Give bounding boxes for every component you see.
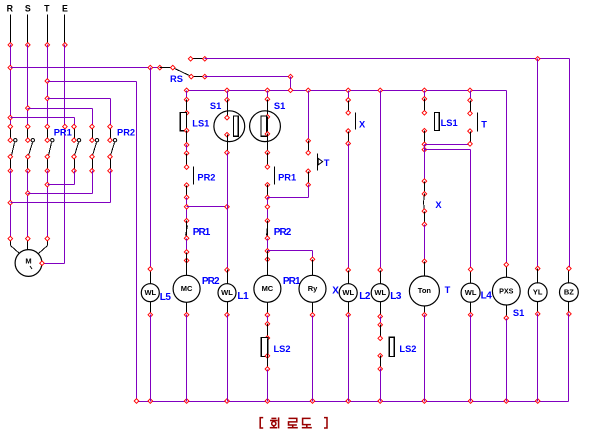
contact X NO bbox=[348, 101, 350, 113]
limit switch LS2 NO bbox=[380, 325, 382, 339]
contact PR1 NC bbox=[186, 221, 188, 239]
wire R to RS switch horizontal bbox=[11, 67, 160, 69]
svg-text:MC: MC bbox=[181, 284, 193, 293]
wire T-contact to MC2 bbox=[308, 185, 310, 198]
buzzer BZ bbox=[568, 269, 570, 284]
wire T terminal stub bbox=[47, 15, 49, 45]
wire S to PR2 pole2 top bbox=[28, 108, 93, 110]
title [ hoe ro do ] circuit diagram bbox=[260, 417, 327, 428]
svg-text:LS2: LS2 bbox=[274, 344, 291, 354]
svg-text:E: E bbox=[62, 4, 68, 14]
contactor PR2 pole 3 bbox=[110, 127, 112, 141]
wire L1 lead bbox=[227, 100, 229, 118]
wire PXS to rail bbox=[506, 319, 508, 402]
svg-text:S1: S1 bbox=[274, 101, 285, 111]
wire top rail right drop to BZ bbox=[569, 59, 571, 269]
wire MC2 to Ry coil bbox=[268, 250, 313, 252]
wire MC1 branch top bbox=[186, 91, 188, 100]
svg-text:S1: S1 bbox=[513, 308, 524, 318]
svg-text:WL: WL bbox=[465, 288, 477, 297]
svg-text:X: X bbox=[332, 286, 339, 297]
wire L4 branch top bbox=[470, 91, 472, 101]
svg-text:LS1: LS1 bbox=[192, 118, 209, 128]
svg-text:PXS: PXS bbox=[499, 286, 514, 295]
wire R phase vertical bbox=[10, 45, 12, 127]
wire control bus bbox=[187, 90, 507, 92]
wire S to PR2 pole2 bottom bbox=[28, 193, 93, 195]
wire L5 to rail bbox=[150, 315, 152, 402]
wire L3 to rail bbox=[380, 369, 382, 402]
wire bottom rail bbox=[137, 401, 569, 403]
timer coil Ton bbox=[409, 276, 439, 306]
svg-text:L1: L1 bbox=[237, 291, 249, 302]
wire L2 branch top bbox=[348, 91, 350, 101]
wire L2 to rail bbox=[348, 315, 350, 402]
svg-text:L5: L5 bbox=[160, 292, 172, 303]
lamp WL L1 bbox=[218, 284, 236, 302]
relay coil Ry bbox=[312, 260, 314, 276]
svg-text:PR1: PR1 bbox=[193, 227, 211, 238]
wire MC1 to coil bbox=[186, 239, 188, 253]
wire MC2 lead bbox=[267, 100, 269, 117]
wire L3 branch top bbox=[380, 91, 382, 271]
svg-text:LS1: LS1 bbox=[441, 118, 458, 128]
svg-text:RS: RS bbox=[170, 74, 183, 84]
wire Ton junction B bbox=[425, 149, 471, 151]
svg-text:YL: YL bbox=[533, 287, 543, 296]
svg-text:X: X bbox=[435, 200, 442, 210]
svg-text:Ry: Ry bbox=[308, 284, 318, 293]
wire MC2 below coil bbox=[267, 316, 269, 324]
wire S terminal stub bbox=[27, 15, 29, 45]
svg-text:WL: WL bbox=[144, 288, 156, 297]
wire PR1 pole1 output bbox=[10, 171, 12, 239]
wire MC1 lead bbox=[186, 100, 188, 113]
svg-text:WL: WL bbox=[374, 288, 386, 297]
wire T to PR2 pole1 bottom bbox=[48, 184, 75, 186]
lamp WL L5 bbox=[150, 270, 152, 284]
wire MC1 to rail bbox=[186, 315, 188, 402]
lamp WL L2 bbox=[339, 284, 357, 302]
svg-text:L3: L3 bbox=[390, 291, 402, 302]
svg-text:PR2: PR2 bbox=[197, 173, 215, 183]
contactor PR1 pole 1 bbox=[10, 127, 12, 141]
svg-text:S1: S1 bbox=[210, 101, 221, 111]
lamp WL L4 bbox=[470, 270, 472, 284]
svg-text:WL: WL bbox=[221, 288, 233, 297]
contactor PR1 pole 3 bbox=[47, 127, 49, 141]
wire L4 to rail bbox=[470, 315, 472, 402]
wire L5 branch from R feed bbox=[150, 68, 152, 270]
wire T to PR2 pole3 top bbox=[48, 98, 111, 100]
wire Ry to rail bbox=[312, 316, 314, 402]
wire MC2 mid bbox=[267, 198, 269, 221]
wire PR1 pole3 output bbox=[47, 171, 49, 239]
sensor PXS bbox=[506, 265, 508, 278]
contactor coil MC1 bbox=[173, 275, 200, 302]
svg-text:PR2: PR2 bbox=[202, 276, 220, 287]
svg-text:PR2: PR2 bbox=[274, 227, 292, 238]
contactor PR2 pole 2 bbox=[92, 127, 94, 141]
lamp YL bbox=[537, 269, 539, 284]
limit switch LS1 NO bbox=[424, 99, 426, 113]
wire MC1 below LS1 bbox=[186, 131, 188, 145]
contactor PR1 pole 2 bbox=[27, 127, 29, 141]
wire L1 to rail bbox=[227, 315, 229, 402]
wire top control rail bbox=[205, 58, 570, 60]
contact X NC bbox=[424, 182, 426, 194]
svg-text:R: R bbox=[7, 4, 14, 14]
wire L1 branch top bbox=[227, 91, 229, 100]
svg-text:WL: WL bbox=[342, 288, 354, 297]
svg-text:L4: L4 bbox=[481, 290, 493, 301]
wire T phase vertical bbox=[47, 45, 49, 127]
wire MC2 to rail bbox=[267, 370, 269, 402]
svg-text:T: T bbox=[44, 4, 50, 14]
svg-text:M: M bbox=[25, 257, 31, 266]
wire BZ to rail bbox=[568, 314, 570, 402]
svg-text:PR1: PR1 bbox=[278, 173, 296, 183]
wire MC2 branch top bbox=[267, 91, 269, 100]
wire S phase vertical bbox=[27, 45, 29, 127]
svg-text:Ton: Ton bbox=[418, 286, 432, 295]
svg-text:L2: L2 bbox=[359, 291, 371, 302]
wire L2 to coil bbox=[348, 144, 350, 271]
wire E to motor frame bbox=[43, 263, 65, 265]
pushbutton S1 NC bbox=[250, 111, 281, 142]
wire MC2 to coil bbox=[267, 239, 269, 251]
limit switch LS1 NC bbox=[180, 112, 186, 130]
pushbutton S1 NO bbox=[214, 111, 245, 142]
wire bus right drop to PXS bbox=[506, 91, 508, 265]
svg-text:BZ: BZ bbox=[564, 287, 574, 296]
contact T delay NO bbox=[308, 141, 310, 153]
contact T NO bbox=[470, 101, 472, 114]
contact PR1 NO bbox=[267, 153, 269, 167]
wire MC1 junction to L1 bbox=[186, 198, 188, 221]
wire T to bottom rail bbox=[48, 81, 137, 83]
wire Ton to coil bbox=[424, 225, 426, 262]
wire R to PR2 pole1 top bbox=[11, 117, 75, 119]
svg-text:PR1: PR1 bbox=[54, 128, 72, 138]
svg-text:T: T bbox=[324, 158, 330, 168]
svg-text:S: S bbox=[25, 4, 31, 14]
contactor coil MC2 bbox=[254, 275, 281, 302]
contact PR2 NC bbox=[267, 221, 269, 239]
wire RS lower output bbox=[205, 76, 291, 78]
svg-text:MC: MC bbox=[262, 284, 274, 293]
motor M bbox=[15, 250, 42, 277]
svg-text:X: X bbox=[359, 119, 366, 129]
svg-text:T: T bbox=[481, 120, 487, 130]
svg-text:PR1: PR1 bbox=[283, 276, 301, 287]
wire E terminal stub bbox=[64, 15, 66, 45]
contact PR2 NO bbox=[186, 154, 188, 168]
contactor PR2 pole 1 bbox=[74, 127, 76, 141]
svg-text:T: T bbox=[445, 285, 451, 295]
wire Ton to rail bbox=[424, 315, 426, 402]
lamp WL L3 bbox=[380, 271, 382, 284]
wire R terminal stub bbox=[10, 15, 12, 45]
wire Ton branch top bbox=[424, 91, 426, 99]
wire Ton mid bbox=[424, 145, 426, 182]
wire T-contact branch top bbox=[308, 91, 310, 141]
wire L3 below coil bbox=[380, 317, 382, 325]
wire R to PR2 pole3 bottom bbox=[11, 202, 111, 204]
wire L1 to coil bbox=[227, 153, 229, 270]
wire Ton junction A bbox=[425, 144, 471, 146]
wire E earth vertical bbox=[64, 45, 66, 264]
svg-text:LS2: LS2 bbox=[399, 344, 416, 354]
wire PR1 pole2 output bbox=[27, 171, 29, 239]
limit switch LS2 NC bbox=[267, 324, 269, 339]
wire YL branch bbox=[537, 59, 539, 269]
wire YL to rail bbox=[537, 314, 539, 402]
svg-text:PR2: PR2 bbox=[117, 128, 135, 138]
switch RS bbox=[160, 67, 173, 69]
